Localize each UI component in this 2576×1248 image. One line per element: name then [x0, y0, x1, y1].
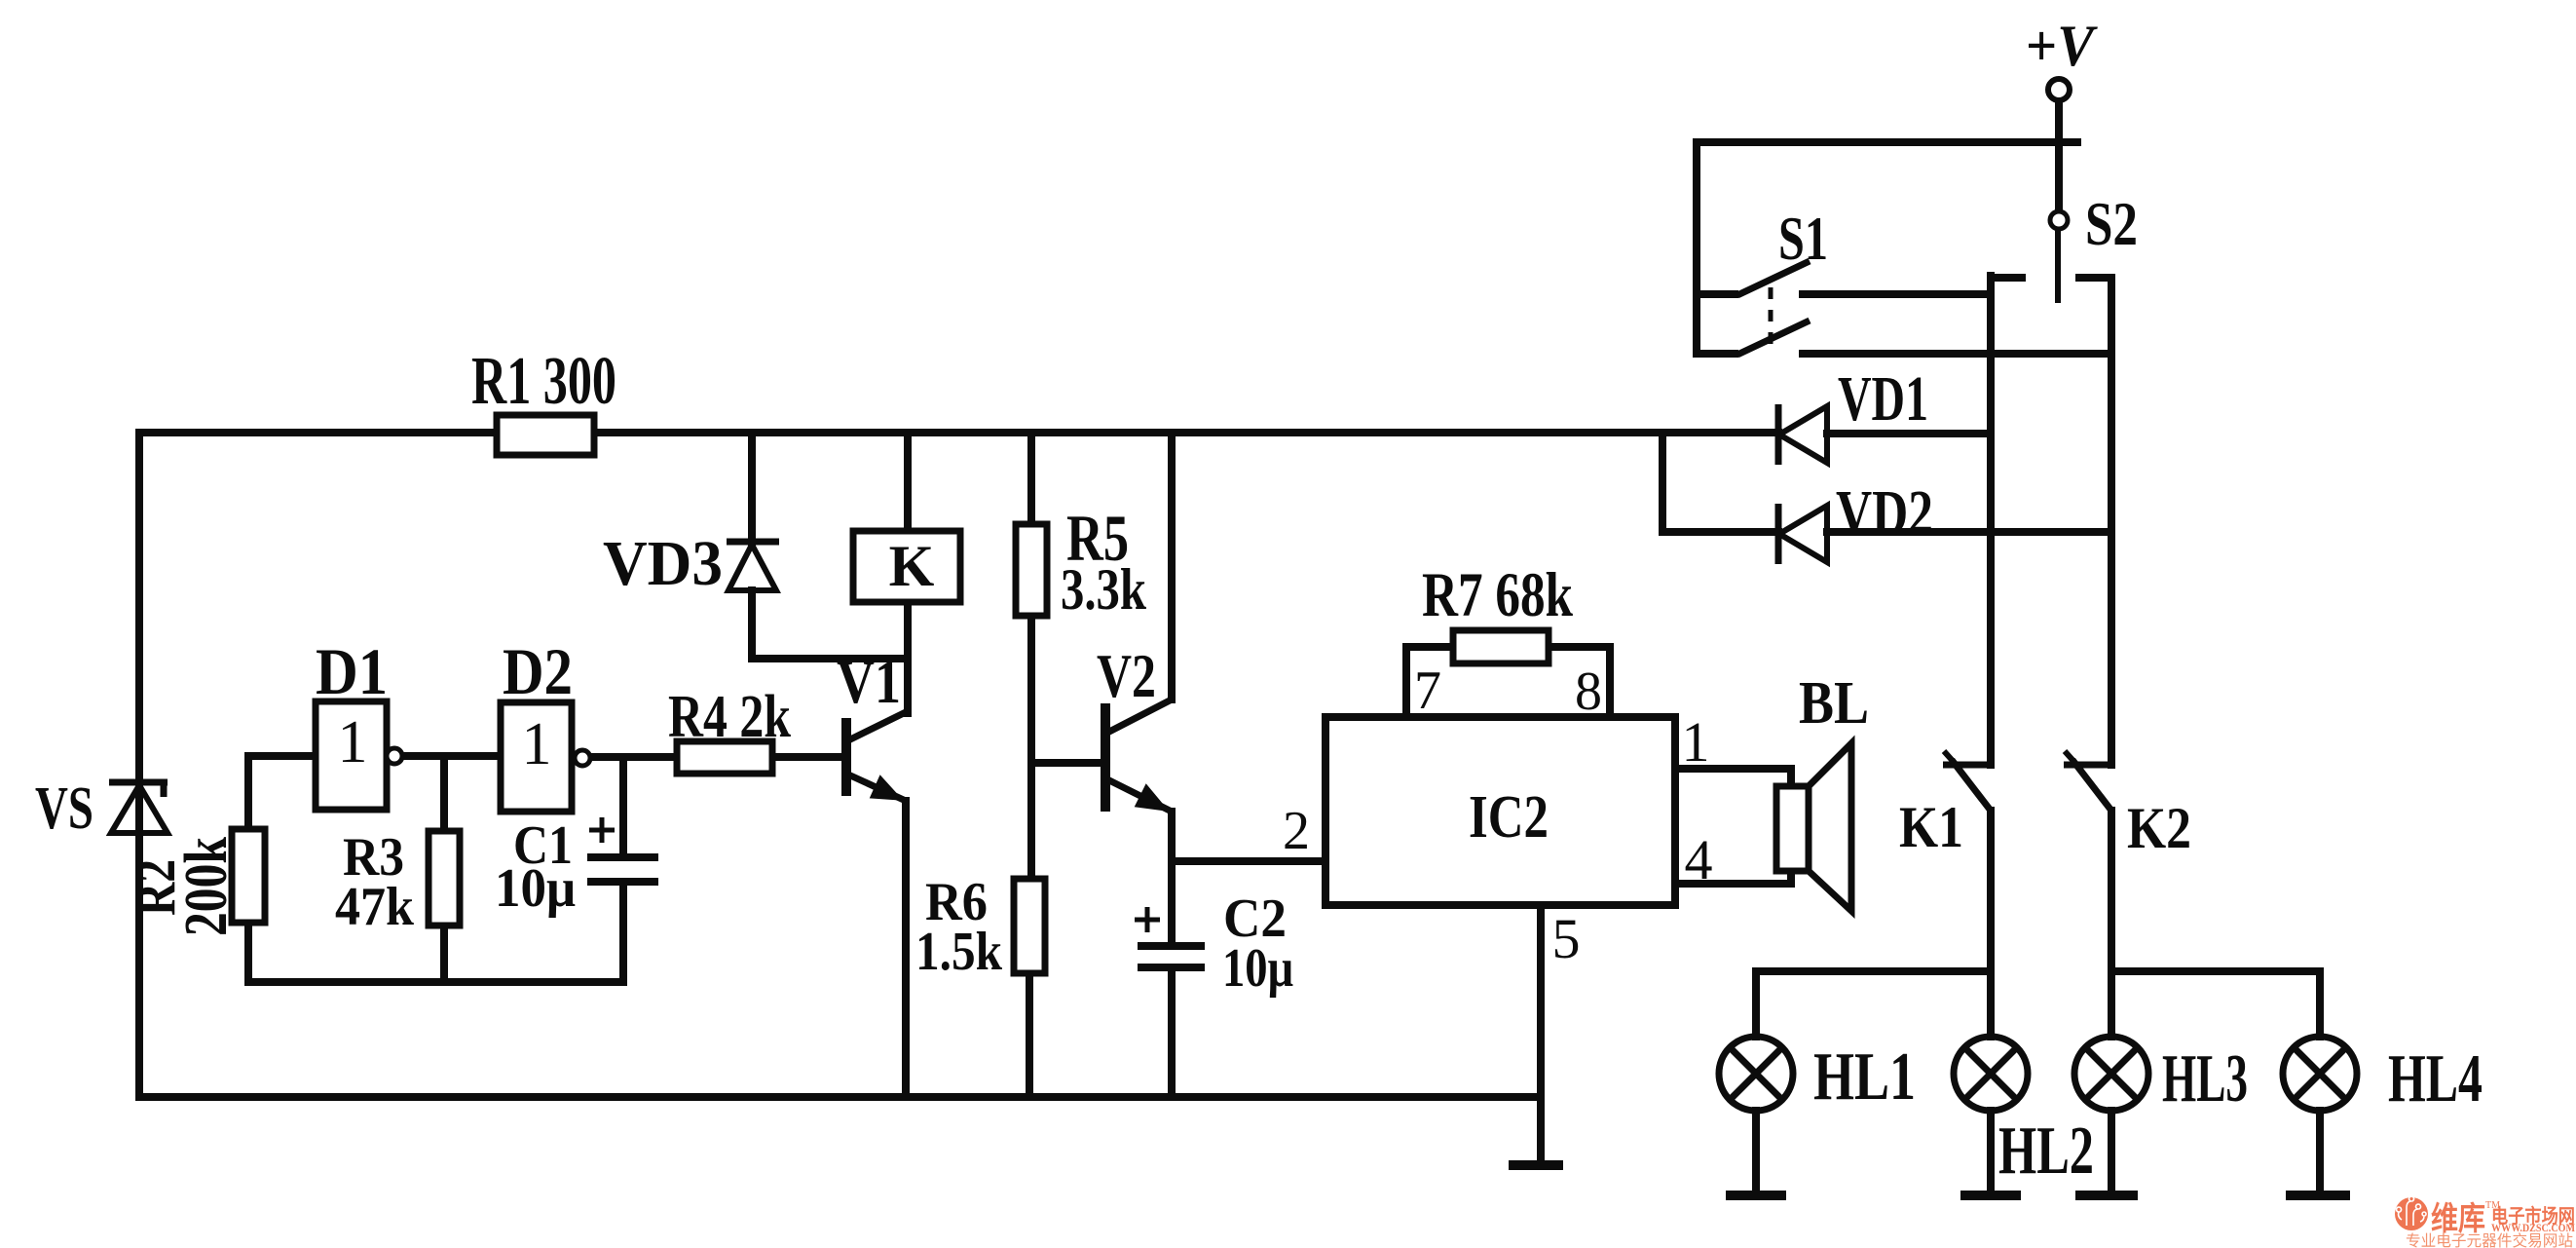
resistor R3: [429, 831, 460, 926]
svg-text:7: 7: [1414, 661, 1441, 721]
svg-text:4: 4: [1685, 828, 1713, 891]
relay coil K: [853, 531, 960, 602]
IC U1 IC2 box: [1325, 717, 1675, 905]
wire: bottom main bus: [139, 1093, 1541, 1101]
svg-text:VS: VS: [35, 775, 93, 842]
wire: S1 upper contact line to left rail: [1803, 290, 1991, 298]
lamp HL3: [2074, 1037, 2148, 1111]
wire: left vertical rail (through VS): [135, 433, 143, 1097]
capacitor C2: [1138, 946, 1205, 967]
svg-text:R1 300: R1 300: [471, 344, 616, 419]
wire: HL1 stem: [1752, 971, 1760, 1037]
wire: HL2 lower stem to ground: [1987, 1111, 1995, 1191]
svg-text:1: 1: [338, 709, 368, 775]
svg-text:K1: K1: [1899, 795, 1963, 859]
ground (IC2 pin 5): [1509, 1160, 1563, 1170]
svg-text:R7 68k: R7 68k: [1422, 560, 1574, 630]
wire: R4 to V1 base: [772, 753, 846, 761]
wire: VD1 cathode side to left rail: [1827, 430, 1991, 437]
resistor R2: [232, 829, 265, 923]
wire: V2 collector vertical to top bus: [1168, 433, 1176, 700]
svg-text:专业电子元器件交易网站: 专业电子元器件交易网站: [2406, 1232, 2573, 1248]
wire: +V terminal to S2: [2055, 100, 2063, 211]
svg-text:5: 5: [1552, 907, 1581, 970]
wire: K1 lower vertical to HL2: [1987, 811, 1995, 1037]
wire: VD3 top stub: [748, 433, 756, 542]
svg-text:HL2: HL2: [1998, 1114, 2094, 1189]
lamp HL1: [1719, 1037, 1793, 1111]
ground (HL4): [2286, 1191, 2350, 1200]
svg-text:WWW.DZSC.COM: WWW.DZSC.COM: [2491, 1221, 2575, 1234]
wire: IC2 pin 4 to speaker: [1675, 871, 1791, 884]
gate D2 box: [501, 702, 590, 812]
wire: IC2 pin 1 to speaker: [1675, 769, 1791, 786]
svg-text:IC2: IC2: [1469, 784, 1549, 851]
wire: C2 bottom to bottom bus: [1168, 970, 1176, 1097]
svg-text:D1: D1: [316, 634, 388, 708]
capacitor C2 polarity plus: [1135, 907, 1160, 932]
svg-text:200k: 200k: [173, 837, 240, 936]
wire: R5 top stub: [1027, 433, 1035, 524]
ground (HL2): [1960, 1191, 2021, 1200]
wire: HL4 branch from K2 rail: [2111, 967, 2320, 975]
wire: S1 lower contact line to right rail: [1803, 350, 2111, 358]
wire: S1 upper pole stub: [1697, 290, 1735, 298]
gate D1 box: [316, 701, 402, 810]
wire: oscillator bottom bus: [248, 978, 623, 986]
wire: R3 bottom: [440, 926, 448, 982]
switch K1 (relay contact): [1943, 751, 1991, 811]
wire: V1 emitter down to bottom bus: [902, 801, 910, 1097]
capacitor C1: [587, 857, 658, 882]
svg-text:2: 2: [1283, 801, 1310, 861]
transistor V2: [1105, 700, 1172, 812]
svg-text:1: 1: [522, 711, 552, 777]
switch K2 (relay contact): [2064, 751, 2111, 811]
wire: S1 box left side: [1693, 142, 1700, 354]
wire: right rail (down to K2): [2108, 278, 2115, 765]
svg-text:3.3k: 3.3k: [1061, 557, 1147, 622]
svg-text:1: 1: [1682, 710, 1710, 774]
wire: VD2 branch corner from top bus: [1662, 433, 1778, 532]
ground (HL3): [2075, 1191, 2138, 1200]
svg-text:HL1: HL1: [1813, 1040, 1916, 1115]
wire: K relay bottom to V1 collector: [904, 602, 912, 713]
svg-text:BL: BL: [1799, 670, 1869, 737]
wire: top main bus from left corner to VD1: [139, 429, 1778, 436]
lamp HL2: [1954, 1037, 2028, 1111]
svg-text:10μ: 10μ: [495, 858, 576, 919]
svg-text:R4 2k: R4 2k: [668, 684, 791, 750]
speaker BL: [1776, 743, 1851, 911]
switch S1 (ganged, two poles): [1737, 261, 1810, 355]
svg-text:VD2: VD2: [1836, 477, 1933, 548]
wire: R6 bottom to bottom bus: [1026, 973, 1033, 1097]
svg-text:维库: 维库: [2431, 1201, 2485, 1237]
svg-text:S1: S1: [1778, 204, 1828, 273]
wire: HL4 lower stem to ground: [2316, 1111, 2324, 1191]
wire: left rail (S2 left stub down to K1): [1987, 276, 1995, 765]
wire: R2 bottom to oscillator bus: [244, 923, 252, 982]
svg-text:+V: +V: [2026, 14, 2099, 78]
wire: junction node to R3 top: [440, 756, 448, 831]
resistor R5: [1016, 524, 1047, 616]
wire: node to IC2 pin 2: [1172, 857, 1325, 865]
wire: K2 lower vertical to HL3: [2108, 811, 2115, 1037]
capacitor C1 polarity plus: [589, 817, 615, 843]
wire: R5 bottom to V2 base node and R6: [1027, 616, 1035, 879]
svg-text:D2: D2: [503, 634, 573, 708]
ground (HL1): [1726, 1191, 1786, 1200]
resistor R6: [1014, 879, 1045, 973]
wire: HL4 stem: [2316, 971, 2324, 1037]
svg-text:S2: S2: [2085, 189, 2138, 258]
svg-text:8: 8: [1575, 662, 1602, 722]
svg-text:HL4: HL4: [2388, 1041, 2483, 1116]
wire: IC2 pin 7 stub to R7: [1406, 647, 1453, 717]
svg-text:VD1: VD1: [1838, 363, 1928, 435]
watermark logo 维库电子市场网: [2395, 1196, 2575, 1248]
wire: left rail top stub: [1991, 274, 2022, 282]
svg-text:HL3: HL3: [2162, 1041, 2248, 1116]
wire: C1 bottom: [619, 886, 627, 982]
resistor R7: [1453, 630, 1549, 663]
svg-text:47k: 47k: [335, 877, 415, 937]
wire: R7 to IC2 pin 8 stub: [1549, 647, 1610, 717]
diode VD1 (points left): [1778, 404, 1827, 465]
wire: VD3 anode down and over to V1 collector: [752, 590, 908, 659]
wire: V2 emitter down through pin2 node to C2: [1168, 812, 1176, 943]
transistor V1: [846, 711, 908, 801]
svg-text:K: K: [889, 534, 935, 598]
diode VD2 (points left): [1778, 504, 1827, 564]
svg-text:K2: K2: [2127, 796, 2191, 860]
wire: HL1 lower stem to ground: [1752, 1111, 1760, 1191]
svg-text:1.5k: 1.5k: [915, 922, 1003, 982]
resistor R1: [497, 415, 594, 455]
wire: S1 box top line: [1697, 138, 2077, 146]
svg-text:10μ: 10μ: [1222, 938, 1293, 999]
lamp HL4: [2283, 1037, 2357, 1111]
wire: S1 lower pole stub: [1697, 350, 1735, 358]
wire: D1 output to D2 input: [401, 752, 501, 760]
diode VS (zener, cathode up): [109, 782, 168, 833]
wire: D2 output to R4: [590, 753, 677, 761]
switch S2 (+V selector): [2048, 79, 2070, 303]
wire: VD2 cathode side to right rail: [1827, 528, 2111, 536]
svg-text:V1: V1: [837, 647, 901, 716]
wire: K relay top stub: [904, 433, 912, 531]
resistor R4: [677, 741, 772, 774]
wire: C1 top drop: [619, 757, 627, 853]
wire: HL1 branch from K1 rail: [1756, 967, 1991, 975]
wire: right rail top stub: [2079, 274, 2111, 282]
wire: IC2 pin 5 to ground: [1537, 905, 1545, 1161]
svg-text:VD3: VD3: [603, 528, 723, 599]
wire: HL3 lower stem to ground: [2108, 1111, 2115, 1191]
wire: V2 base wire: [1031, 759, 1105, 767]
diode VD3 (cathode bar up, anode down): [727, 542, 779, 590]
wire: R2 top to D1 input: [248, 756, 316, 829]
svg-text:V2: V2: [1097, 641, 1156, 710]
